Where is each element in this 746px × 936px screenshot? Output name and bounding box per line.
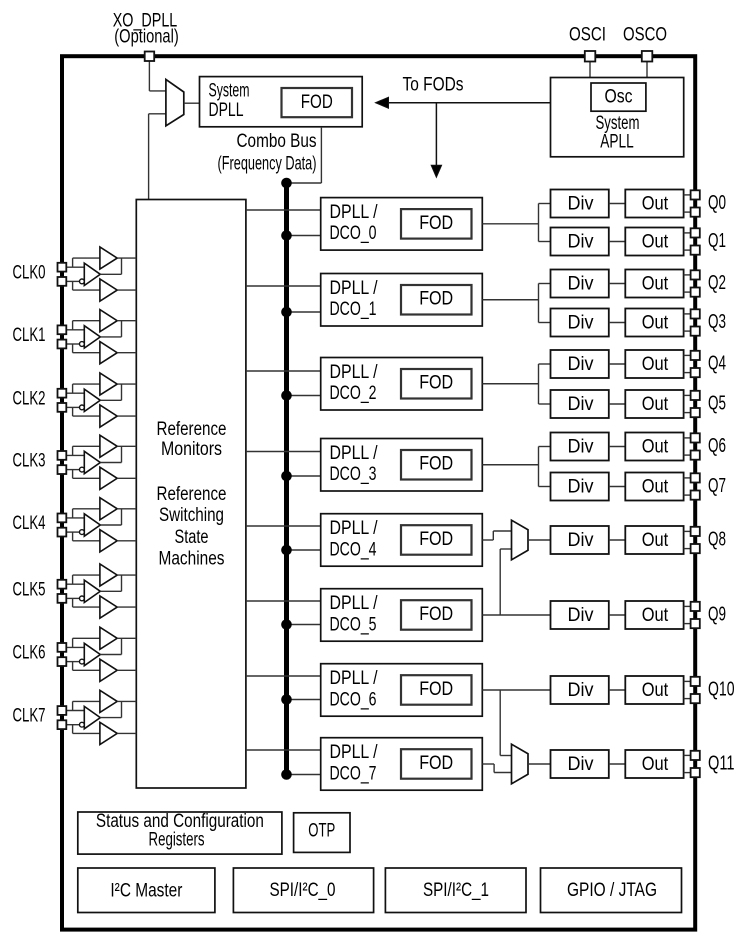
wire DPLL_6 to Q10 divider: [482, 689, 550, 691]
buffer CLK4 differential: [84, 514, 100, 536]
block FOD of DCO_7: [401, 749, 472, 779]
wire DPLL_5 branch to Q8 mux lower input: [499, 549, 501, 615]
pin CLK2 P: [58, 389, 67, 398]
svg-text:Reference: Reference: [157, 484, 227, 505]
junction bus DPLL_1: [281, 307, 292, 318]
pin Q3 P: [691, 309, 700, 318]
buffer CLK1 single-ended P: [100, 310, 117, 332]
buffer CLK5 single-ended P: [100, 564, 117, 586]
wire combo bus to DPLL_2: [287, 395, 321, 397]
wire Out to pins Q3: [684, 313, 691, 315]
wire CLK5 buffer outputs: [117, 574, 136, 576]
wire OSCO to System APLL: [646, 60, 648, 78]
svg-text:Reference: Reference: [157, 419, 227, 440]
svg-text:Q9: Q9: [708, 603, 726, 625]
svg-text:To FODs: To FODs: [403, 75, 464, 96]
block FOD of DCO_5: [401, 600, 472, 630]
block System APLL: [551, 78, 684, 157]
pin CLK4 N: [58, 528, 67, 537]
mux Q11: [512, 744, 529, 784]
svg-text:FOD: FOD: [419, 289, 453, 310]
wire combo bus to DPLL_0: [287, 235, 321, 237]
svg-text:Div: Div: [568, 394, 594, 415]
pin Q9 P: [691, 602, 700, 611]
wire reference input to DPLL_2: [246, 370, 321, 372]
svg-text:SPI/I²C_1: SPI/I²C_1: [423, 880, 489, 901]
divider Div Q0: [551, 190, 609, 218]
wire reference input to DPLL_3: [246, 451, 321, 453]
buffer CLK6 single-ended P: [100, 627, 117, 649]
pin Q11 N: [691, 768, 700, 777]
pin CLK3 N: [58, 465, 67, 474]
wire Out to pins Q9: [684, 605, 691, 607]
pin CLK0 N: [58, 277, 67, 286]
bubble CLK6 inverting input: [80, 659, 85, 664]
wire Out to pins Q4: [684, 354, 691, 356]
buffer CLK5 differential: [84, 580, 100, 602]
divider Div Q7: [551, 473, 609, 501]
svg-text:DCO_4: DCO_4: [330, 539, 377, 560]
buffer CLK1 differential: [84, 326, 100, 348]
mux Q8: [512, 520, 529, 560]
svg-text:Div: Div: [568, 194, 594, 215]
svg-text:CLK4: CLK4: [13, 513, 46, 534]
svg-text:State: State: [175, 527, 209, 548]
svg-text:Out: Out: [642, 394, 669, 415]
output driver Out Q9: [625, 601, 683, 629]
svg-text:DPLL /: DPLL /: [330, 202, 379, 223]
pin OSCO: [642, 51, 653, 62]
pin Q1 N: [691, 246, 700, 255]
wire combo bus to DPLL_7: [287, 774, 321, 776]
wire Out to pins Q5: [684, 394, 691, 396]
divider Div Q5: [551, 390, 609, 418]
pin Q2 N: [691, 288, 700, 297]
divider Div Q3: [551, 309, 609, 337]
wire Div to Out Q0: [609, 203, 626, 205]
svg-text:Q4: Q4: [708, 352, 726, 374]
output driver Out Q5: [625, 390, 683, 418]
svg-text:I²C Master: I²C Master: [110, 880, 183, 901]
svg-text:Q11: Q11: [708, 752, 735, 774]
wire Div to Out Q5: [609, 403, 626, 405]
svg-text:Q10: Q10: [708, 678, 735, 700]
junction bus DPLL_0: [281, 230, 292, 241]
pin Q7 P: [691, 473, 700, 482]
svg-text:Out: Out: [642, 274, 669, 295]
wire DPLL_4 to Q8 mux upper input: [482, 539, 493, 541]
block DPLL / DCO_1: [321, 274, 483, 327]
wire Div to Out Q7: [609, 486, 626, 488]
svg-text:FOD: FOD: [419, 213, 453, 234]
wire Out to pins Q6: [684, 437, 691, 439]
svg-text:Out: Out: [642, 194, 669, 215]
svg-text:DCO_5: DCO_5: [330, 614, 377, 635]
pin Q4 N: [691, 368, 700, 377]
svg-text:Div: Div: [568, 530, 594, 551]
svg-text:Q5: Q5: [708, 392, 726, 414]
wire CLK7 input nets: [66, 710, 84, 712]
svg-text:DPLL /: DPLL /: [330, 668, 379, 689]
divider Div Q9: [551, 601, 609, 629]
svg-text:FOD: FOD: [419, 604, 453, 625]
bubble CLK1 inverting input: [80, 342, 85, 347]
svg-text:FOD: FOD: [419, 373, 453, 394]
junction bus DPLL_2: [281, 390, 292, 401]
wire reference input to DPLL_0: [246, 209, 321, 211]
pin Q8 N: [691, 544, 700, 553]
svg-text:Out: Out: [642, 754, 669, 775]
pin Q2 P: [691, 270, 700, 279]
svg-text:DPLL /: DPLL /: [330, 518, 379, 539]
buffer CLK3 single-ended P: [100, 435, 117, 457]
svg-text:(Optional): (Optional): [114, 27, 179, 48]
svg-text:FOD: FOD: [419, 454, 453, 475]
buffer CLK4 single-ended P: [100, 498, 117, 520]
wire reference input to DPLL_1: [246, 285, 321, 287]
arrowhead to System DPLL FOD: [376, 97, 389, 108]
junction bus DPLL_3: [281, 471, 292, 482]
svg-text:FOD: FOD: [419, 529, 453, 550]
svg-text:FOD: FOD: [301, 92, 333, 113]
wire combo bus to DPLL_1: [287, 311, 321, 313]
wire DPLL_1 output branch: [482, 299, 538, 301]
svg-text:Div: Div: [568, 754, 594, 775]
wire Out to pins Q10: [684, 680, 691, 682]
svg-text:Div: Div: [568, 680, 594, 701]
svg-text:Div: Div: [568, 605, 594, 626]
svg-text:CLK7: CLK7: [13, 706, 46, 727]
wire Out to pins Q8: [684, 530, 691, 532]
buffer CLK6 differential: [84, 643, 100, 665]
svg-text:Q0: Q0: [708, 192, 726, 214]
svg-text:DPLL /: DPLL /: [330, 278, 379, 299]
mux system dpll input: [166, 79, 184, 125]
svg-text:DPLL /: DPLL /: [330, 443, 379, 464]
block FOD of DCO_6: [401, 675, 472, 705]
wire To FODs branch down: [435, 103, 437, 166]
buffer CLK4 single-ended N: [100, 530, 117, 552]
svg-text:DCO_3: DCO_3: [330, 464, 377, 485]
block Reference Monitors / Switching State Machines: [136, 200, 246, 789]
svg-text:SPI/I²C_0: SPI/I²C_0: [270, 880, 336, 901]
output driver Out Q3: [625, 309, 683, 337]
svg-text:Q2: Q2: [708, 272, 726, 294]
wire Out to pins Q11: [684, 754, 691, 756]
block DPLL / DCO_2: [321, 358, 483, 411]
pin Q1 P: [691, 228, 700, 237]
svg-text:FOD: FOD: [419, 753, 453, 774]
block SPI/I2C_0: [233, 868, 373, 913]
wire Div to Out Q1: [609, 241, 626, 243]
wire Div to Out Q8: [609, 539, 626, 541]
svg-text:Monitors: Monitors: [161, 439, 222, 460]
wire reference input to DPLL_5: [246, 600, 321, 602]
junction bus DPLL_4: [281, 545, 292, 556]
divider Div Q11: [551, 750, 609, 778]
wire Out to pins Q0: [684, 194, 691, 196]
wire DPLL_5 to Q9 divider: [482, 614, 550, 616]
pin Q3 N: [691, 327, 700, 336]
wire Q8 mux output: [528, 539, 551, 541]
buffer CLK0 differential: [84, 263, 100, 285]
svg-text:Combo Bus: Combo Bus: [237, 131, 317, 152]
block DPLL / DCO_5: [321, 589, 483, 642]
wire CLK0 buffer outputs: [117, 257, 136, 259]
block OTP: [294, 813, 350, 853]
svg-text:Div: Div: [568, 274, 594, 295]
wire combo bus to DPLL_6: [287, 699, 321, 701]
wire Div to Out Q11: [609, 763, 626, 765]
wire XO to mux: [148, 60, 150, 91]
buffer CLK3 single-ended N: [100, 467, 117, 489]
output driver Out Q11: [625, 750, 683, 778]
pin Q11 P: [691, 751, 700, 760]
wire CLK3 input nets: [66, 454, 84, 456]
pin OSCI: [585, 51, 596, 62]
wire Out to pins Q2: [684, 274, 691, 276]
wire combo bus to DPLL_3: [287, 475, 321, 477]
block I2C Master: [78, 868, 215, 913]
wire Div to Out Q4: [609, 363, 626, 365]
wire DPLL_2 output branch: [482, 383, 538, 385]
svg-text:Q6: Q6: [708, 435, 726, 457]
wire reference input to DPLL_7: [246, 749, 321, 751]
pin Q10 N: [691, 694, 700, 703]
pin CLK6 P: [58, 643, 67, 652]
wire reference input to DPLL_4: [246, 525, 321, 527]
svg-text:DPLL /: DPLL /: [330, 593, 379, 614]
block Status and Configuration Registers: [78, 812, 282, 854]
pin CLK2 N: [58, 403, 67, 412]
block FOD of DCO_2: [401, 369, 472, 399]
svg-text:Out: Out: [642, 313, 669, 334]
block SPI/I2C_1: [385, 868, 526, 913]
svg-text:CLK3: CLK3: [13, 451, 46, 472]
wire Div to Out Q9: [609, 614, 626, 616]
svg-text:DCO_6: DCO_6: [330, 689, 377, 710]
pin CLK5 N: [58, 594, 67, 603]
bubble CLK4 inverting input: [80, 530, 85, 535]
block DPLL / DCO_6: [321, 664, 483, 717]
svg-text:DCO_0: DCO_0: [330, 223, 377, 244]
wire CLK2 input nets: [66, 392, 84, 394]
svg-text:OTP: OTP: [308, 821, 335, 842]
buffer CLK0 single-ended P: [100, 247, 117, 269]
svg-text:Out: Out: [642, 477, 669, 498]
svg-text:Machines: Machines: [159, 549, 225, 570]
svg-text:Q1: Q1: [708, 230, 726, 252]
wire CLK0 input nets: [66, 266, 84, 268]
wire CLK2 buffer outputs: [117, 383, 136, 385]
svg-text:Osc: Osc: [605, 87, 633, 108]
chip outer border: [62, 56, 695, 929]
wire Div to Out Q10: [609, 689, 626, 691]
wire CLK4 input nets: [66, 517, 84, 519]
block FOD of DCO_0: [401, 209, 472, 239]
svg-text:Out: Out: [642, 680, 669, 701]
buffer CLK2 differential: [84, 389, 100, 411]
output driver Out Q1: [625, 228, 683, 256]
output driver Out Q0: [625, 190, 683, 218]
bubble CLK0 inverting input: [80, 279, 85, 284]
pin Q5 N: [691, 408, 700, 417]
svg-text:(Frequency Data): (Frequency Data): [218, 154, 317, 175]
wire Q11 mux output: [528, 763, 551, 765]
svg-text:OSCO: OSCO: [623, 25, 667, 46]
wire combo bus to DPLL_5: [287, 624, 321, 626]
pin Q6 P: [691, 433, 700, 442]
buffer CLK0 single-ended N: [100, 279, 117, 301]
svg-text:CLK2: CLK2: [13, 388, 46, 409]
wire OSCI to System APLL: [589, 60, 591, 78]
buffer CLK7 single-ended P: [100, 690, 117, 712]
output driver Out Q4: [625, 350, 683, 378]
svg-text:CLK6: CLK6: [13, 643, 46, 664]
svg-text:DPLL: DPLL: [209, 100, 244, 121]
block FOD of System DPLL: [282, 88, 353, 117]
output driver Out Q7: [625, 473, 683, 501]
pin Q0 P: [691, 190, 700, 199]
block GPIO / JTAG: [541, 868, 682, 913]
wire CLK6 buffer outputs: [117, 637, 136, 639]
svg-text:Out: Out: [642, 530, 669, 551]
svg-text:Q8: Q8: [708, 528, 726, 550]
svg-text:Div: Div: [568, 437, 594, 458]
wire DPLL_0 output branch: [482, 223, 538, 225]
block DPLL / DCO_7: [321, 738, 483, 791]
svg-text:GPIO / JTAG: GPIO / JTAG: [567, 880, 657, 901]
junction bus DPLL_7: [281, 769, 292, 780]
pin Q8 P: [691, 527, 700, 536]
svg-text:DPLL /: DPLL /: [330, 362, 379, 383]
divider Div Q10: [551, 676, 609, 704]
buffer CLK6 single-ended N: [100, 659, 117, 681]
wire System DPLL to combo bus: [320, 127, 322, 183]
wire To FODs: [388, 102, 551, 104]
wire Out to pins Q7: [684, 477, 691, 479]
wire CLK5 input nets: [66, 583, 84, 585]
block Osc: [591, 83, 646, 111]
bubble CLK7 inverting input: [80, 722, 85, 727]
block FOD of DCO_3: [401, 450, 472, 480]
bubble CLK5 inverting input: [80, 596, 85, 601]
svg-text:CLK5: CLK5: [13, 579, 46, 600]
pin XO_DPLL: [145, 52, 155, 62]
wire CLK1 input nets: [66, 329, 84, 331]
pin CLK3 P: [58, 451, 67, 460]
wire CLK1 buffer outputs: [117, 320, 136, 322]
bubble CLK2 inverting input: [80, 405, 85, 410]
svg-text:DCO_7: DCO_7: [330, 763, 377, 784]
pin CLK1 N: [58, 340, 67, 349]
wire combo bus to DPLL_4: [287, 549, 321, 551]
svg-text:Q7: Q7: [708, 475, 726, 497]
buffer CLK5 single-ended N: [100, 596, 117, 618]
junction bus DPLL_5: [281, 619, 292, 630]
wire Div to Out Q3: [609, 322, 626, 324]
bubble CLK3 inverting input: [80, 467, 85, 472]
junction bus DPLL_6: [281, 694, 292, 705]
svg-text:Registers: Registers: [149, 830, 205, 851]
svg-text:CLK0: CLK0: [13, 262, 46, 283]
svg-text:Switching: Switching: [159, 505, 224, 526]
svg-text:Out: Out: [642, 354, 669, 375]
svg-text:Div: Div: [568, 232, 594, 253]
arrowhead down to FODs: [431, 165, 441, 177]
svg-text:OSCI: OSCI: [569, 25, 606, 46]
wire CLK7 buffer outputs: [117, 700, 136, 702]
pin CLK7 N: [58, 720, 67, 729]
pin Q7 N: [691, 491, 700, 500]
buffer CLK1 single-ended N: [100, 342, 117, 364]
block FOD of DCO_4: [401, 525, 472, 555]
svg-text:Div: Div: [568, 477, 594, 498]
svg-text:Out: Out: [642, 605, 669, 626]
svg-text:Out: Out: [642, 232, 669, 253]
svg-text:Div: Div: [568, 313, 594, 334]
pin CLK5 P: [58, 580, 67, 589]
svg-text:Div: Div: [568, 354, 594, 375]
pin Q5 P: [691, 391, 700, 400]
pin Q10 P: [691, 677, 700, 686]
junction combo bus top: [281, 178, 292, 189]
svg-text:DCO_1: DCO_1: [330, 299, 377, 320]
pin Q4 P: [691, 351, 700, 360]
svg-text:APLL: APLL: [600, 132, 634, 153]
svg-text:CLK1: CLK1: [13, 325, 46, 346]
output driver Out Q6: [625, 433, 683, 461]
pin CLK6 N: [58, 657, 67, 666]
svg-text:FOD: FOD: [419, 679, 453, 700]
pin Q9 N: [691, 619, 700, 628]
divider Div Q4: [551, 350, 609, 378]
wire DPLL_7 to Q11 mux lower input: [482, 763, 494, 765]
svg-text:DPLL /: DPLL /: [330, 742, 379, 763]
output driver Out Q10: [625, 676, 683, 704]
buffer CLK2 single-ended P: [100, 373, 117, 395]
block DPLL / DCO_3: [321, 439, 483, 492]
svg-text:Q3: Q3: [708, 311, 726, 333]
divider Div Q6: [551, 433, 609, 461]
wire mux to System DPLL: [184, 102, 200, 104]
block System DPLL: [200, 77, 363, 127]
wire CLK6 input nets: [66, 646, 84, 648]
block DPLL / DCO_0: [321, 198, 483, 251]
wire Div to Out Q6: [609, 446, 626, 448]
wire Div to Out Q2: [609, 283, 626, 285]
svg-text:Out: Out: [642, 437, 669, 458]
wire CLK4 buffer outputs: [117, 508, 136, 510]
wire Out to pins Q1: [684, 232, 691, 234]
divider Div Q8: [551, 526, 609, 554]
wire DPLL_3 output branch: [482, 464, 538, 466]
block DPLL / DCO_4: [321, 514, 483, 567]
pin CLK4 P: [58, 514, 67, 523]
buffer CLK7 single-ended N: [100, 722, 117, 744]
block FOD of DCO_1: [401, 285, 472, 315]
wire mux lower input from reference monitors: [149, 113, 166, 115]
svg-text:System: System: [209, 81, 250, 102]
output driver Out Q2: [625, 270, 683, 298]
divider Div Q2: [551, 270, 609, 298]
wire CLK3 buffer outputs: [117, 445, 136, 447]
bus Combo Bus vertical: [284, 183, 289, 775]
divider Div Q1: [551, 228, 609, 256]
buffer CLK7 differential: [84, 706, 100, 728]
output driver Out Q8: [625, 526, 683, 554]
pin CLK1 P: [58, 325, 67, 334]
